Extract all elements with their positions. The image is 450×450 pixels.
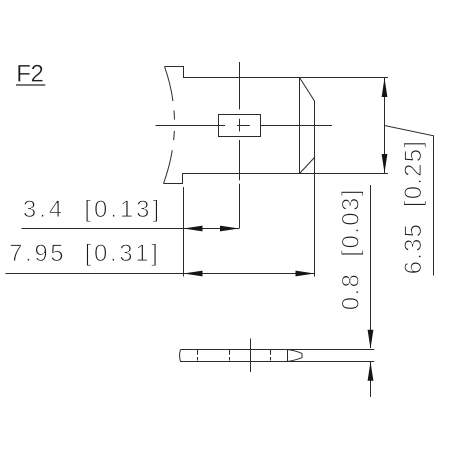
svg-text:6.35 [0.25]: 6.35 [0.25] <box>400 140 427 275</box>
svg-text:F2: F2 <box>16 60 43 87</box>
svg-text:3.4 [0.13]: 3.4 [0.13] <box>23 196 162 223</box>
svg-text:0.8 [0.03]: 0.8 [0.03] <box>338 188 365 310</box>
svg-text:7.95 [0.31]: 7.95 [0.31] <box>9 240 160 267</box>
